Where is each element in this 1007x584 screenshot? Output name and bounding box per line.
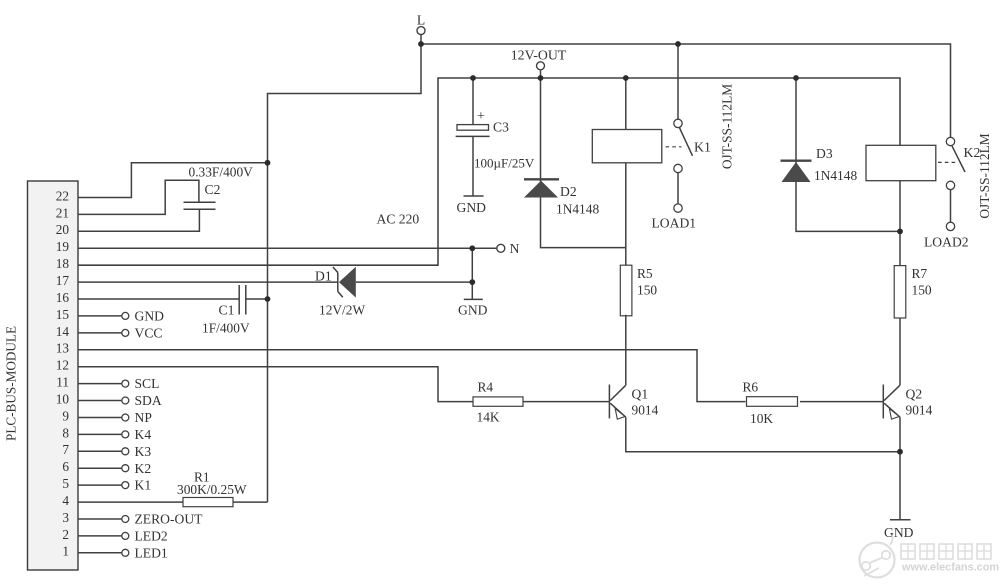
svg-text:C2: C2 xyxy=(205,182,221,197)
junction dot D3 at rail xyxy=(793,75,799,81)
wire pin 22 to node A xyxy=(78,163,268,198)
node pin 2 terminal circle xyxy=(122,532,129,539)
wire 12V rail to K1 coil xyxy=(625,78,627,130)
svg-text:20: 20 xyxy=(56,222,70,237)
wire 12V rail to C3 xyxy=(472,78,474,125)
wire pin 5 stub xyxy=(78,484,122,486)
junction dot K1 switch branch xyxy=(675,41,681,47)
junction dot C3 at 12V rail xyxy=(470,75,476,81)
capacitor C3 xyxy=(457,125,489,131)
svg-text:R4: R4 xyxy=(478,380,494,395)
wire D1 junction to ground symbol xyxy=(471,282,473,299)
svg-text:K2: K2 xyxy=(135,461,152,476)
svg-text:GND: GND xyxy=(884,525,914,540)
svg-text:L: L xyxy=(417,13,425,28)
svg-text:22: 22 xyxy=(56,188,69,203)
diode D3 1N4148 xyxy=(781,159,812,161)
svg-text:10K: 10K xyxy=(750,411,773,426)
junction dot node B relay K2 xyxy=(897,229,903,235)
node pin 15 terminal circle xyxy=(122,312,129,319)
resistor R4 xyxy=(473,397,523,406)
wire R1 to main rail xyxy=(233,501,268,503)
wire pin 8 stub xyxy=(78,433,122,435)
wire node B to R7 xyxy=(899,231,901,265)
node N terminal circle xyxy=(497,244,505,252)
transistor Q2 9014 xyxy=(882,385,884,419)
switch K2 top contact circle xyxy=(946,137,954,145)
relay K1 coil box xyxy=(592,130,662,163)
svg-text:12V-OUT: 12V-OUT xyxy=(511,48,567,63)
relay K1 actuator dashed link xyxy=(666,146,682,148)
diode D2 1N4148 xyxy=(524,178,559,180)
wire pin 17 to D1 anode side xyxy=(78,281,338,283)
svg-text:18: 18 xyxy=(56,256,70,271)
node pin 14 terminal circle xyxy=(122,329,129,336)
diode D1 zener 12V/2W xyxy=(337,273,339,292)
node pin 6 terminal circle xyxy=(122,465,129,472)
wire pin 9 stub xyxy=(78,417,122,419)
svg-text:+: + xyxy=(477,109,485,124)
switch K1 top contact circle xyxy=(674,119,682,127)
wire R5 to Q1 collector xyxy=(625,315,627,385)
node pin 5 terminal circle xyxy=(122,482,129,489)
svg-text:150: 150 xyxy=(637,283,657,298)
svg-text:SCL: SCL xyxy=(135,376,160,391)
svg-text:4: 4 xyxy=(62,493,69,508)
wire K2 common to LOAD2 xyxy=(950,190,952,223)
switch K1 common contact circle xyxy=(674,164,682,172)
svg-text:C1: C1 xyxy=(219,303,235,318)
resistor R6 xyxy=(747,397,798,407)
wire top rail to K1 switch xyxy=(677,44,679,119)
svg-text:D2: D2 xyxy=(560,184,577,199)
svg-text:150: 150 xyxy=(912,283,932,298)
svg-text:OJT-SS-112LM: OJT-SS-112LM xyxy=(977,133,992,218)
wire pin 6 stub xyxy=(78,467,122,469)
node pin 10 terminal circle xyxy=(122,397,129,404)
wire pin 14 stub xyxy=(78,332,122,334)
resistor R1 xyxy=(183,498,233,507)
svg-text:K3: K3 xyxy=(135,444,152,459)
svg-text:19: 19 xyxy=(56,239,70,254)
svg-text:C3: C3 xyxy=(493,120,509,135)
watermark logo (decorative, not labelled further) xyxy=(860,535,895,578)
svg-text:1F/400V: 1F/400V xyxy=(202,321,250,336)
wire 12V rail through D2 to K1 coil bottom xyxy=(541,78,626,248)
node pin 7 terminal circle xyxy=(122,448,129,455)
wire pin 19 to node N xyxy=(78,247,497,249)
svg-text:100µF/25V: 100µF/25V xyxy=(474,156,535,171)
switch K2 common contact circle xyxy=(946,181,954,189)
svg-text:NP: NP xyxy=(135,410,153,425)
wire pin 10 stub xyxy=(78,400,122,402)
wire pin 20 to C2 bottom plate xyxy=(78,209,199,231)
wire K2 coil bottom to node B xyxy=(899,181,901,232)
wire C3 to ground xyxy=(472,136,474,196)
wire R6 to Q2 base xyxy=(800,401,883,403)
relay K2 coil box xyxy=(866,145,936,180)
wire 12V rail through D3 to K2 coil bottom xyxy=(796,78,900,231)
junction dot D1 ground branch xyxy=(469,279,475,285)
svg-text:10: 10 xyxy=(56,391,70,406)
svg-text:Q2: Q2 xyxy=(906,387,923,402)
wire pin 13 to R6 xyxy=(78,350,746,402)
svg-text:11: 11 xyxy=(56,375,69,390)
svg-text:0.33F/400V: 0.33F/400V xyxy=(189,165,254,180)
wire pin 2 stub xyxy=(78,535,122,537)
wire pin 1 stub xyxy=(78,552,122,554)
wire R4 to Q1 base xyxy=(523,401,609,403)
svg-text:GND: GND xyxy=(457,200,487,215)
junction dot C1 rail xyxy=(265,296,271,302)
svg-text:K4: K4 xyxy=(135,427,152,442)
node pin 3 terminal circle xyxy=(122,516,129,523)
wire Q1 emitter to ground rail xyxy=(626,417,900,452)
svg-text:D3: D3 xyxy=(816,146,833,161)
junction dot Q2 emitter ground xyxy=(897,449,903,455)
wire pin 16 to C1 left plate xyxy=(78,298,239,300)
wire pin 4 to R1 xyxy=(78,501,183,503)
wire node N branch to D1 line xyxy=(471,248,473,282)
svg-text:9: 9 xyxy=(62,408,69,423)
svg-text:K1: K1 xyxy=(135,478,152,493)
junction dot 12V-OUT at rail xyxy=(538,75,544,81)
capacitor C1 xyxy=(238,285,240,315)
junction dot N ground branch xyxy=(469,245,475,251)
wire pin 15 stub xyxy=(78,315,122,317)
svg-text:AC 220: AC 220 xyxy=(377,212,420,227)
resistor R7 xyxy=(894,266,906,318)
wire pin 3 stub xyxy=(78,518,122,520)
svg-text:LED1: LED1 xyxy=(135,545,168,560)
svg-text:1N4148: 1N4148 xyxy=(814,168,857,183)
junction dot node A pin22 rail xyxy=(265,160,271,166)
node LOAD1 terminal circle xyxy=(674,204,682,212)
node pin 1 terminal circle xyxy=(122,549,129,556)
svg-text:R7: R7 xyxy=(912,266,928,281)
svg-text:14K: 14K xyxy=(477,410,500,425)
transistor Q1 9014 xyxy=(608,385,610,419)
svg-text:LOAD1: LOAD1 xyxy=(652,216,697,231)
wire pin 11 stub xyxy=(78,383,122,385)
svg-text:17: 17 xyxy=(56,273,70,288)
svg-text:3: 3 xyxy=(62,510,69,525)
svg-text:12V/2W: 12V/2W xyxy=(319,303,365,318)
capacitor C2 xyxy=(184,201,216,203)
wire R7 to Q2 collector xyxy=(899,318,901,385)
svg-text:13: 13 xyxy=(56,341,70,356)
svg-text:PLC-BUS-MODULE: PLC-BUS-MODULE xyxy=(4,326,19,441)
svg-text:16: 16 xyxy=(56,290,70,305)
svg-text:1N4148: 1N4148 xyxy=(556,202,599,217)
svg-text:Q1: Q1 xyxy=(632,387,649,402)
watermark brand glyphs xyxy=(901,544,991,559)
svg-text:6: 6 xyxy=(62,459,69,474)
svg-text:9014: 9014 xyxy=(906,403,933,418)
svg-text:8: 8 xyxy=(62,425,69,440)
ground symbol below N xyxy=(464,298,483,300)
svg-text:OJT-SS-112LM: OJT-SS-112LM xyxy=(720,84,735,169)
node pin 9 terminal circle xyxy=(122,414,129,421)
wire pin 12 to R4 xyxy=(78,367,473,402)
node pin 11 terminal circle xyxy=(122,380,129,387)
wire Q2 emitter to ground node xyxy=(899,417,901,452)
node L terminal circle xyxy=(417,27,425,35)
svg-text:GND: GND xyxy=(135,309,165,324)
svg-text:R5: R5 xyxy=(637,266,653,281)
svg-text:12: 12 xyxy=(56,358,69,373)
wire K1 coil bottom to R5 xyxy=(625,163,627,266)
switch K2 blade xyxy=(952,146,965,172)
svg-text:LOAD2: LOAD2 xyxy=(924,235,969,250)
ground symbol below C3 xyxy=(464,195,484,197)
wire C1 right plate to main rail xyxy=(246,298,268,300)
relay K2 actuator dashed link xyxy=(938,161,956,163)
svg-text:15: 15 xyxy=(56,307,70,322)
junction dot under L xyxy=(418,41,424,47)
wire K1 common to LOAD1 xyxy=(677,173,679,204)
wire ground node to ground symbol xyxy=(899,452,901,520)
wire top rail L to K2 switch xyxy=(421,44,951,137)
svg-text:1: 1 xyxy=(62,544,69,559)
connector J1 PLC-BUS-MODULE body xyxy=(28,181,79,570)
svg-text:21: 21 xyxy=(56,205,69,220)
svg-text:5: 5 xyxy=(62,476,69,491)
svg-text:R6: R6 xyxy=(743,380,759,395)
svg-text:GND: GND xyxy=(458,303,488,318)
svg-text:SDA: SDA xyxy=(135,393,162,408)
node LOAD2 terminal circle xyxy=(946,222,954,230)
ground symbol bottom right xyxy=(890,519,911,521)
svg-text:14: 14 xyxy=(56,324,70,339)
svg-text:300K/0.25W: 300K/0.25W xyxy=(177,482,247,497)
svg-text:2: 2 xyxy=(62,527,69,542)
wire D1 cathode to ground node xyxy=(356,281,473,283)
svg-text:ZERO-OUT: ZERO-OUT xyxy=(135,512,204,527)
node 12V-OUT terminal circle xyxy=(537,62,545,70)
svg-text:D1: D1 xyxy=(315,269,332,284)
wire pin 18 to 12V rail xyxy=(78,78,900,265)
svg-text:VCC: VCC xyxy=(135,326,163,341)
switch K1 blade xyxy=(680,128,693,156)
svg-text:N: N xyxy=(510,241,520,256)
wire main rail node A to L corner xyxy=(268,44,422,502)
svg-text:K1: K1 xyxy=(694,140,711,155)
svg-text:LED2: LED2 xyxy=(135,529,168,544)
svg-text:www.elecfans.com: www.elecfans.com xyxy=(901,562,999,574)
wire pin 21 to C2 top plate xyxy=(78,180,199,214)
svg-text:9014: 9014 xyxy=(632,403,659,418)
junction dot K1 coil at rail xyxy=(623,75,629,81)
resistor R5 xyxy=(620,265,632,316)
svg-text:7: 7 xyxy=(62,442,69,457)
node pin 8 terminal circle xyxy=(122,431,129,438)
wire pin 7 stub xyxy=(78,450,122,452)
